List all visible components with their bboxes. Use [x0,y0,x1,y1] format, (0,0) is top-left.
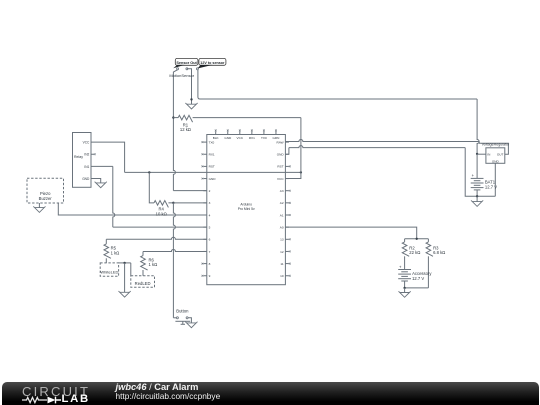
svg-text:TX0: TX0 [209,140,215,144]
svg-text:MotionSensor: MotionSensor [169,73,194,78]
svg-text:12.7 V: 12.7 V [412,276,424,281]
svg-text:IN2: IN2 [84,153,89,157]
battery Accessory 12.7V [398,269,411,271]
svg-text:10 kΩ: 10 kΩ [156,212,167,217]
resistor R2 22k [404,239,406,242]
IC left pin 6 [203,238,207,240]
svg-text:+: + [399,265,402,270]
ground: piezo [38,203,40,208]
svg-text:A2: A2 [280,201,284,205]
IC right pin A3 [285,190,289,192]
svg-text:8: 8 [209,262,211,266]
svg-text:Button: Button [176,309,189,314]
ground: accessory [404,288,406,293]
svg-text:OUT: OUT [497,153,504,157]
IC left pin GND [203,178,207,180]
ground: motion sensor [185,103,197,109]
resistor R6 1k [142,251,144,255]
IC right pin VCC [285,178,289,180]
RedLED box [131,276,155,288]
svg-text:12.7 V: 12.7 V [485,184,497,189]
IC right pin GND [285,153,289,155]
wire: IC A0 to R2/R3 divider [285,227,416,239]
svg-text:RAW: RAW [276,140,283,144]
wire: sensor OUT down to IC pin 2 (net A) [173,70,177,74]
MotionSensor pins [177,68,179,70]
node: divider top [405,238,429,240]
IC top pin RX1 [251,131,253,134]
wire: junction down to IC VCC pin [285,172,301,178]
relay module box [73,133,92,188]
op-amp U1: Arduino Pro Mini box [207,135,286,285]
IC right pin A1 [285,214,289,216]
svg-text:9: 9 [209,274,211,278]
wire: 12V to sensor down and right to regulator [198,69,477,99]
svg-text:GND: GND [209,177,217,181]
svg-text:7: 7 [209,250,211,254]
relay IN2 stub (n.c.) [91,153,94,155]
svg-text:+: + [472,173,475,178]
svg-text:12 kΩ: 12 kΩ [180,127,191,132]
IC top pin GND [227,131,229,134]
svg-text:RX1: RX1 [209,153,215,157]
svg-text:A0: A0 [280,225,284,229]
svg-text:A1: A1 [280,213,284,217]
IC right pin 13 [285,238,289,240]
IC right pin RST [285,165,289,167]
callout: 12V to sensor [199,58,226,65]
svg-text:RedLED: RedLED [135,281,151,286]
svg-text:2: 2 [209,189,211,193]
resistor R4 10k [149,172,154,202]
wire: relay VCC to IC VCC net (y=172.4) [91,142,125,172]
wire: regulator IN [477,153,486,155]
svg-text:1 kΩ: 1 kΩ [149,262,158,267]
svg-text:Sensor Out: Sensor Out [176,61,197,65]
IC right pin A2 [285,202,289,204]
svg-text:VoltageRegulator: VoltageRegulator [482,143,510,147]
IC left pin TX0 [203,141,207,143]
callout: Sensor Out [175,58,198,65]
svg-text:VCC: VCC [277,177,284,181]
IC left pin RX1 [203,153,207,155]
IC top pin TX0 [263,131,265,134]
svg-text:GND: GND [224,136,232,140]
svg-text:RST: RST [277,165,283,169]
svg-text:RX1: RX1 [249,136,255,140]
wire: IC RAW to regulator OUT [285,140,479,142]
wire: piezo signal to IC pin 4 [58,203,207,215]
ground: LEDs [119,291,131,297]
svg-text:Buzzer: Buzzer [39,196,53,201]
IC top pin GRN [275,131,277,134]
node: BAT1 minus / ground [476,195,478,197]
wire: net B down to button [173,203,175,318]
svg-text:22 kΩ: 22 kΩ [409,250,420,255]
IC right pin A0 [285,226,289,228]
wire: WhiteLED cathode to ground and RedLED [119,262,131,264]
resistor R3 6.8k [427,239,429,242]
wire: regulator GND down [494,163,496,196]
svg-text:A3: A3 [280,189,284,193]
IC right pin 10 [285,275,289,277]
svg-text:IN1: IN1 [84,165,89,169]
wire: relay IN1 to IC pin 5 [91,165,113,167]
svg-text:12: 12 [280,250,284,254]
piezo buzzer box [27,178,64,203]
ground: BAT1 [476,196,478,201]
pushbutton switch [176,317,178,319]
svg-text:Pro Mini 5v: Pro Mini 5v [238,207,255,211]
IC left pin 8 [203,263,207,265]
wire: IC pin 6 to R5 [106,237,207,239]
WhiteLED box [100,263,118,276]
resistor R5 1k [105,239,107,244]
svg-text:TX0: TX0 [261,136,267,140]
IC right pin RAW [285,141,289,143]
svg-text:VCC: VCC [237,136,244,140]
IC left pin 7 [203,250,207,252]
IC top pin BLK [215,131,217,134]
CircuitLab logo [22,383,97,405]
svg-text:6: 6 [209,238,211,242]
svg-text:VCC: VCC [83,141,90,145]
node: R4 / pin3 / button junction [172,202,174,204]
svg-text:RST: RST [209,165,215,169]
svg-text:11: 11 [280,262,283,266]
svg-text:WhiteLED: WhiteLED [100,270,118,275]
wire+ground: button right terminal [188,318,191,323]
svg-text:Relay: Relay [74,155,83,159]
IC right pin 12 [285,250,289,252]
svg-text:13: 13 [280,238,284,242]
svg-text:R4: R4 [159,206,165,211]
node: R1 tap on sensor net [172,116,174,118]
IC left pin 3 [203,202,207,204]
svg-text:GND: GND [492,159,500,163]
node: 12V / regulator IN / BAT1+ junction [476,153,478,155]
node: VCC net right junction [300,171,302,173]
battery BAT1 12.7V [471,177,484,179]
wire: IC GND(right) to battery minus node [285,148,289,155]
svg-text:12V to sensor: 12V to sensor [200,61,225,65]
IC top pin VCC [239,131,241,134]
IC left pin 4 [203,214,207,216]
svg-text:10: 10 [280,274,284,278]
node: divider bottom [405,287,429,289]
wire: sensor GND to ground [187,69,192,104]
svg-text:IN: IN [487,153,490,157]
resistor R1 12k [173,117,178,119]
IC left pin RST [203,165,207,167]
IC left pin 2 [203,190,207,192]
IC left pin 9 [203,275,207,277]
wire: R1 vertical to VCC node [300,118,302,173]
wire: IC pin 7 to R6 [143,249,207,251]
IC right pin 11 [285,263,289,265]
svg-text:GND: GND [277,153,285,157]
svg-text:3: 3 [209,201,211,205]
svg-text:BLK: BLK [213,136,220,140]
svg-text:GRN: GRN [273,136,280,140]
svg-text:6.8 kΩ: 6.8 kΩ [433,250,445,255]
node: VCC net to R4 junction [148,171,150,173]
svg-text:GND: GND [82,177,90,181]
svg-text:4: 4 [209,213,211,217]
IC left pin 5 [203,226,207,228]
svg-text:1 kΩ: 1 kΩ [111,250,120,255]
svg-text:5: 5 [209,225,211,229]
wire+ground: relay GND [91,179,101,183]
